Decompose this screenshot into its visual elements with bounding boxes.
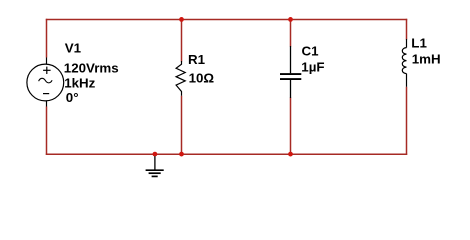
wire V1 bottom xyxy=(46,107,48,155)
ground xyxy=(146,156,164,176)
svg-text:L1: L1 xyxy=(411,35,427,50)
junction node C1 bottom xyxy=(288,152,293,157)
svg-text:0°: 0° xyxy=(66,90,79,105)
junction node C1 top xyxy=(288,17,293,22)
svg-text:10Ω: 10Ω xyxy=(189,71,215,86)
inductor L1 xyxy=(402,39,406,87)
junction node ground xyxy=(153,152,158,157)
wire V1 top xyxy=(46,19,48,58)
wire C1 bottom xyxy=(290,98,292,155)
svg-text:1µF: 1µF xyxy=(301,59,324,74)
wire top net xyxy=(46,19,407,21)
AC source V1 xyxy=(27,58,64,107)
svg-text:V1: V1 xyxy=(65,41,82,56)
svg-text:C1: C1 xyxy=(302,44,320,59)
wire C1 top xyxy=(290,19,292,47)
svg-text:1kHz: 1kHz xyxy=(64,76,95,91)
svg-text:R1: R1 xyxy=(188,52,206,67)
junction node R1 bottom xyxy=(179,152,184,157)
capacitor C1 xyxy=(280,46,301,98)
wire L1 bottom xyxy=(406,87,408,155)
wire L1 top xyxy=(406,19,408,40)
junction node R1 top xyxy=(179,17,184,22)
svg-text:120Vrms: 120Vrms xyxy=(64,61,119,76)
wire R1 top xyxy=(181,19,183,62)
wire bottom net xyxy=(46,153,407,155)
svg-text:1mH: 1mH xyxy=(412,51,441,66)
resistor R1 xyxy=(176,61,185,96)
wire R1 bottom xyxy=(181,96,183,155)
